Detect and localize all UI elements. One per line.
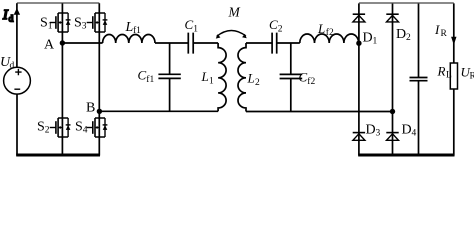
wire C2 to Lf2 [277, 42, 300, 44]
svg-text:L: L [201, 69, 209, 84]
filter capacitor [418, 3, 420, 155]
svg-text:4: 4 [412, 129, 417, 139]
svg-text:D: D [396, 27, 406, 42]
current arrow Id [14, 8, 20, 15]
svg-text:2: 2 [278, 24, 283, 34]
wire node A to Lf1 [62, 42, 102, 44]
capacitor Cf2 [290, 43, 292, 112]
mutual inductance arrow M [217, 31, 246, 37]
wire L2 top to C2 [246, 42, 272, 44]
svg-text:L: L [317, 21, 325, 36]
wire right bridge leg [98, 3, 100, 155]
wire C1 to L1 [193, 42, 218, 44]
svg-text:S: S [40, 15, 48, 30]
wire bottom right (L2 to D4 leg) [246, 111, 393, 113]
svg-text:C: C [138, 68, 147, 83]
svg-text:C: C [299, 70, 308, 85]
svg-text:2: 2 [45, 126, 50, 136]
svg-text:M: M [228, 4, 241, 19]
transistor S2 [50, 118, 71, 137]
svg-text:f2: f2 [326, 27, 334, 38]
svg-text:L: L [446, 71, 452, 81]
load leg wire [453, 3, 455, 155]
node B [97, 109, 102, 114]
wire top rail left bridge [17, 2, 99, 4]
transistor S4 [87, 118, 108, 137]
transistor S3 [87, 13, 108, 32]
svg-text:d: d [9, 15, 14, 25]
svg-text:D: D [366, 123, 376, 138]
svg-text:1: 1 [373, 37, 378, 47]
wire rectifier leg D2/D4 [392, 3, 394, 155]
svg-text:D: D [402, 123, 412, 138]
svg-text:B: B [86, 101, 95, 116]
diode D3 [353, 133, 365, 141]
diode D2 [386, 14, 398, 22]
svg-text:1: 1 [48, 21, 53, 31]
svg-text:3: 3 [376, 129, 381, 139]
diode D1 [353, 14, 365, 22]
wire bottom rail left bridge [16, 154, 100, 157]
svg-text:1: 1 [209, 76, 214, 86]
svg-text:f1: f1 [133, 25, 141, 36]
wire rectifier leg D1/D3 [358, 3, 360, 155]
wire bottom left (B to L1) [99, 110, 218, 112]
svg-text:C: C [185, 17, 194, 32]
node Lf2-D1 junction [356, 41, 361, 46]
wire left bridge leg [61, 3, 63, 155]
svg-text:2: 2 [255, 78, 260, 88]
capacitor Cf1 [169, 43, 171, 111]
svg-text:4: 4 [83, 126, 88, 136]
svg-text:2: 2 [406, 33, 411, 43]
svg-text:3: 3 [82, 21, 87, 31]
svg-text:I: I [434, 22, 440, 37]
wire top rail right [359, 2, 454, 4]
coil L2 [238, 43, 246, 112]
transistor S1 [50, 13, 71, 32]
svg-text:d: d [10, 61, 15, 71]
svg-text:R: R [470, 72, 474, 82]
wire source leg lower [16, 94, 18, 155]
svg-text:S: S [75, 120, 83, 135]
resistor RL [450, 63, 457, 89]
svg-text:S: S [37, 120, 45, 135]
inductor Lf1 [103, 35, 155, 44]
svg-text:D: D [363, 31, 373, 46]
node bottom D2/D4 junction [390, 109, 395, 114]
capacitor C1 [188, 33, 193, 54]
svg-text:S: S [74, 15, 82, 30]
coil L1 [218, 43, 226, 111]
wire Lf1 to C1 [155, 42, 188, 44]
svg-text:R: R [441, 29, 448, 39]
wire source leg upper [16, 3, 18, 67]
capacitor C2 [272, 33, 277, 54]
svg-text:L: L [247, 71, 255, 86]
svg-text:f2: f2 [307, 76, 315, 87]
wire bottom rail right [358, 154, 454, 157]
voltage source Ud [4, 67, 31, 94]
svg-text:C: C [269, 17, 278, 32]
svg-text:f1: f1 [146, 74, 154, 85]
svg-text:R: R [437, 64, 446, 79]
inductor Lf2 [300, 34, 359, 43]
svg-text:A: A [44, 37, 55, 52]
node A [60, 40, 65, 45]
diode D4 [386, 133, 398, 141]
current arrow IR [451, 37, 456, 45]
svg-text:1: 1 [193, 25, 198, 35]
